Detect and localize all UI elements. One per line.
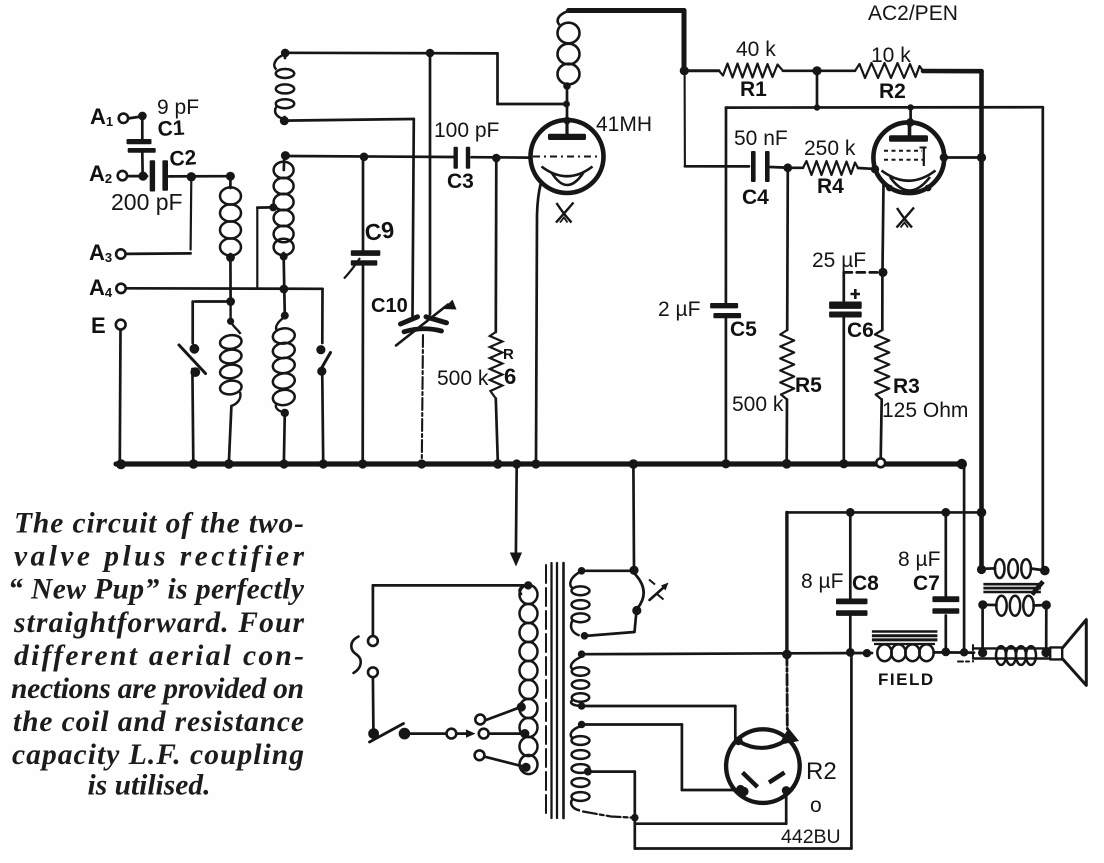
svg-text:100 pF: 100 pF [434,119,499,142]
svg-text:C1: C1 [157,117,185,141]
svg-text:is utilised.: is utilised. [88,770,211,802]
svg-text:2 µF: 2 µF [658,298,700,321]
svg-text:R2: R2 [806,758,837,785]
svg-text:R5: R5 [795,374,822,397]
svg-text:C5: C5 [730,318,757,341]
svg-text:442BU: 442BU [781,826,841,848]
svg-text:500 k: 500 k [732,393,784,416]
svg-text:41MH: 41MH [596,113,652,136]
svg-text:25 µF: 25 µF [812,249,866,272]
svg-text:6: 6 [504,364,516,389]
svg-text:C4: C4 [742,186,769,209]
svg-text:The circuit of the two-: The circuit of the two- [14,508,304,540]
svg-text:8 µF: 8 µF [801,570,843,593]
svg-text:the coil and resistance: the coil and resistance [13,706,304,738]
svg-text:C7: C7 [913,572,940,595]
svg-text:“ New Pup” is perfectly: “ New Pup” is perfectly [8,574,305,606]
svg-text:500 k: 500 k [437,367,489,390]
svg-text:C10: C10 [371,295,408,317]
svg-text:straightforward. Four: straightforward. Four [13,607,305,639]
svg-text:R1: R1 [740,78,767,101]
svg-text:capacity L.F. coupling: capacity L.F. coupling [12,739,304,771]
svg-text:R3: R3 [893,375,920,398]
svg-text:40 k: 40 k [736,38,776,61]
svg-text:8 µF: 8 µF [898,548,940,571]
svg-text:R: R [503,346,514,363]
svg-text:R2: R2 [879,80,906,103]
svg-text:FIELD: FIELD [878,670,935,689]
svg-text:C8: C8 [852,572,879,595]
svg-text:250 k: 250 k [804,137,856,160]
svg-text:C3: C3 [447,170,474,193]
svg-text:200 pF: 200 pF [111,189,183,215]
svg-text:E: E [91,313,106,338]
svg-text:9 pF: 9 pF [157,96,199,119]
svg-text:50 nF: 50 nF [734,127,788,150]
svg-text:125 Ohm: 125 Ohm [882,399,968,422]
svg-text:AC2/PEN: AC2/PEN [868,2,958,25]
svg-text:R4: R4 [817,175,844,198]
svg-text:C9: C9 [363,216,396,246]
svg-text:different aerial con-: different aerial con- [14,640,304,672]
svg-text:nections are provided on: nections are provided on [11,673,304,705]
svg-text:C2: C2 [169,146,197,171]
svg-text:o: o [810,794,822,817]
svg-text:10 k: 10 k [871,44,911,67]
svg-text:C6: C6 [847,319,874,342]
